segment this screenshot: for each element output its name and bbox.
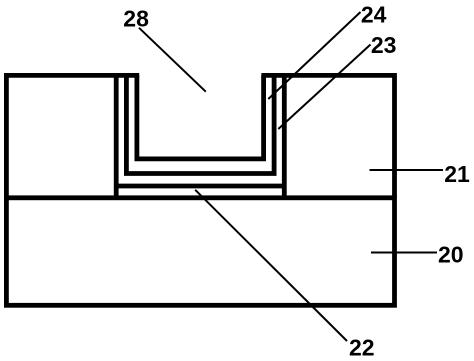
layer 21 right block outline <box>261 75 394 197</box>
leader line 23 <box>278 45 370 130</box>
leader line 22 <box>195 190 347 341</box>
layer 22 bottom layer top line <box>114 184 287 189</box>
layer 24 liner U <box>137 75 264 158</box>
leader line 21 <box>370 169 444 171</box>
leader line 20 <box>371 252 437 254</box>
layer 23 liner U <box>126 75 274 173</box>
layer 20 substrate block <box>6 198 394 305</box>
svg-text:23: 23 <box>371 32 397 58</box>
svg-text:22: 22 <box>349 335 375 361</box>
svg-text:20: 20 <box>438 242 464 268</box>
leader line 24 <box>268 12 360 99</box>
trench right wall <box>282 75 287 197</box>
svg-text:24: 24 <box>361 2 387 28</box>
trench left wall <box>114 75 119 197</box>
leader line 28 <box>139 28 206 92</box>
svg-text:21: 21 <box>444 161 470 187</box>
layer 21 left block outline <box>6 75 139 197</box>
svg-text:28: 28 <box>123 5 149 31</box>
